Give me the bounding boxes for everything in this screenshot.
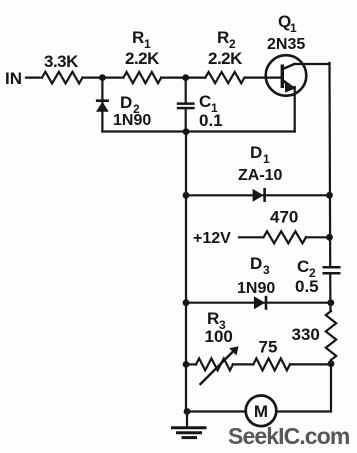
svg-text:1: 1 xyxy=(290,21,297,35)
svg-text:R: R xyxy=(132,28,144,47)
wire right bus top (collector to C2) xyxy=(328,64,331,266)
svg-text:R: R xyxy=(207,309,219,328)
svg-text:M: M xyxy=(254,402,268,421)
node junction bottom left xyxy=(184,408,191,415)
wire bottom left (junction to motor) xyxy=(186,410,246,412)
node junction A (3.3K/R1/D2) xyxy=(99,74,106,81)
resistor R2 2.2K xyxy=(205,72,244,83)
resistor R1 2.2K xyxy=(123,72,161,83)
node junction D3 left xyxy=(183,299,190,306)
svg-text:D: D xyxy=(250,143,262,162)
wire right bus C2 to 330 xyxy=(329,275,331,312)
svg-text:D: D xyxy=(250,254,262,273)
wire R3 to 75 xyxy=(233,363,253,365)
wire R1 to R2 xyxy=(161,76,205,78)
node junction D1 right xyxy=(326,192,333,199)
wire IN lead xyxy=(26,76,42,78)
wire right bus bottom xyxy=(276,360,331,412)
node junction D3 right xyxy=(327,299,334,306)
svg-text:0.5: 0.5 xyxy=(295,277,319,296)
wire 3.3K to R1 xyxy=(83,76,124,78)
wire Q1 collector to right bus xyxy=(295,63,330,64)
wire bottom of D2/C1 to emitter xyxy=(102,130,294,132)
svg-text:+12V: +12V xyxy=(193,230,231,247)
node junction R3 left xyxy=(183,361,190,368)
diode D3 1N90 xyxy=(186,254,331,310)
svg-text:2.2K: 2.2K xyxy=(125,49,160,68)
svg-text:R: R xyxy=(217,28,229,47)
svg-text:ZA-10: ZA-10 xyxy=(238,167,283,184)
wire R2 to Q1 base xyxy=(245,76,282,78)
node junction 470 right xyxy=(326,234,333,241)
svg-text:1N90: 1N90 xyxy=(237,280,275,297)
diode D2 1N90 xyxy=(96,78,151,132)
svg-text:IN: IN xyxy=(5,69,22,88)
svg-text:2N35: 2N35 xyxy=(267,36,305,53)
node junction C (C1 bottom / left bus) xyxy=(183,128,190,135)
wire left bus vertical xyxy=(185,132,187,412)
wire 470 to right bus xyxy=(306,236,330,238)
motor M xyxy=(246,396,277,427)
node junction 75 right xyxy=(328,360,335,367)
svg-text:1N90: 1N90 xyxy=(113,112,151,129)
wire 75 to right bus xyxy=(290,363,331,365)
capacitor C2 0.5 xyxy=(295,257,341,296)
resistor 3.3K xyxy=(42,72,83,84)
svg-text:3: 3 xyxy=(263,263,270,277)
svg-text:1: 1 xyxy=(263,152,270,166)
svg-text:330: 330 xyxy=(292,325,320,344)
svg-text:C: C xyxy=(297,257,309,276)
resistor 470 xyxy=(264,231,307,243)
svg-text:D: D xyxy=(120,93,132,112)
svg-text:SeekIC.com: SeekIC.com xyxy=(228,423,350,449)
node junction B (R1/R2/C1) xyxy=(182,74,189,81)
wire R3 left lead xyxy=(186,363,196,365)
svg-text:2.2K: 2.2K xyxy=(208,49,243,68)
resistor 75 xyxy=(253,358,290,370)
svg-text:0.1: 0.1 xyxy=(199,111,223,130)
wire +12V lead xyxy=(239,236,264,238)
resistor 330 xyxy=(326,311,336,360)
wire Q1 emitter down xyxy=(294,87,296,132)
node junction D1 left xyxy=(183,192,190,199)
resistor R3 100 variable xyxy=(196,309,239,384)
svg-text:75: 75 xyxy=(259,338,278,357)
transistor Q1 2N35 xyxy=(266,12,307,96)
ground xyxy=(173,412,206,438)
svg-text:C: C xyxy=(199,92,211,111)
svg-text:100: 100 xyxy=(205,327,233,346)
diode D1 ZA-10 xyxy=(186,143,330,202)
svg-text:3.3K: 3.3K xyxy=(44,52,79,71)
svg-text:470: 470 xyxy=(270,208,298,227)
capacitor C1 0.1 xyxy=(177,78,223,132)
